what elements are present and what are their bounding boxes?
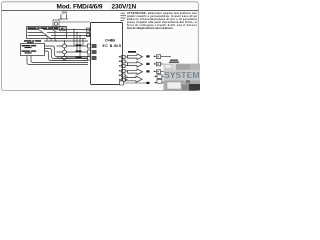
thermostat panel B1 [21, 44, 45, 56]
wire supply horizontal [59, 18, 69, 20]
lamp H2 [63, 50, 67, 54]
junction dot 1 [73, 29, 74, 30]
switch blade 3 [47, 36, 52, 39]
selector switch panel S1 [27, 27, 67, 39]
controller board A1 [91, 23, 123, 85]
svg-text:EC B-BIS: EC B-BIS [103, 44, 122, 48]
svg-text:230V: 230V [62, 11, 68, 14]
board output connector P5 [122, 74, 126, 77]
page border frame [2, 2, 199, 91]
watermark top light patch [164, 64, 176, 70]
wire switch drop a [46, 36, 48, 42]
wire bus row 2 [66, 32, 90, 34]
junction dot 4 [55, 40, 56, 41]
board output connector P1 [122, 56, 126, 59]
watermark panel [164, 64, 201, 91]
remote connector K1 [157, 55, 161, 59]
wire switch drop b [50, 39, 52, 42]
note paragraph [127, 11, 198, 30]
ferrite blob 2 [146, 63, 149, 65]
wire drop col 2 [76, 33, 78, 53]
board output connector P2 [122, 60, 126, 63]
wire label blob row 1 [76, 44, 82, 46]
wire bus row 4 [51, 38, 86, 40]
wire bus row 1 [66, 29, 90, 31]
wire elbow fan 4 [31, 56, 88, 63]
board corner connector P7 [120, 81, 124, 85]
watermark dark block [189, 84, 200, 91]
selector indicator mark [61, 28, 64, 30]
junction dot 3 [79, 35, 80, 36]
wire corner row [124, 82, 147, 84]
wire lamp chain [64, 41, 66, 56]
wire bus row 3 [66, 35, 90, 37]
connector J4b [92, 50, 97, 54]
switch wire row 3 [28, 35, 67, 37]
selector switch label [28, 27, 59, 29]
connector J1a [87, 28, 90, 31]
watermark top white chip [165, 65, 172, 69]
watermark top dark patch [176, 64, 190, 70]
wire elbow fan 5 [27, 56, 88, 65]
wire to watermark 2 [161, 63, 171, 65]
wire drop col 1 [73, 30, 75, 47]
pin mark k2 [154, 63, 156, 64]
board output pin p5 [119, 75, 121, 76]
wire label blob row 2 [76, 50, 82, 52]
switch blade 2 [43, 33, 48, 36]
svg-text:Mod. FMD/4/6/9: Mod. FMD/4/6/9 [57, 3, 103, 10]
wire lamp row 3 [57, 57, 88, 59]
ferrite blob 3 [146, 70, 149, 72]
page background [0, 0, 200, 94]
connector J3b [92, 44, 97, 48]
wire to watermark 5 [162, 82, 171, 84]
wire supply drop [60, 19, 62, 20]
pin dot K2 [157, 64, 158, 65]
wire to watermark 1 [161, 56, 171, 58]
cable arrow 4 (bottom) [126, 76, 143, 82]
wire label blob row 3 [76, 56, 82, 58]
connector J5b [92, 56, 97, 60]
board output pin p6 [119, 79, 121, 80]
junction dot lamp [64, 40, 65, 41]
watermark white box [167, 82, 181, 89]
board output pin p3 [119, 65, 121, 66]
cable arrow 3 [128, 69, 143, 75]
switch bottom label [24, 40, 41, 43]
switch blade 1 [39, 30, 44, 33]
wire fan top bus [44, 40, 88, 42]
wire supply to board [59, 21, 90, 23]
wire lamp row 1 [57, 45, 88, 47]
terminal block circle [54, 22, 57, 25]
wire to watermark 4 [162, 76, 171, 78]
switch wire row 2 [28, 32, 67, 34]
remote connector K3 [157, 70, 161, 74]
cable arrow 1 [128, 54, 143, 60]
ferrite blob 1 [146, 55, 149, 57]
wire elbow fan 2 [44, 49, 88, 59]
wire elbow fan 1 [44, 46, 90, 57]
junction dot 2 [76, 32, 77, 33]
thermostat label 2 [22, 50, 37, 53]
wire elbow fan 3 [44, 51, 88, 61]
connector J2a [87, 34, 90, 37]
board pin legend [121, 13, 127, 21]
connector J4a [88, 50, 92, 54]
watermark mid block [182, 85, 189, 91]
connector J2b [90, 34, 93, 37]
board output connector P6 [122, 79, 126, 82]
watermark top right patch [190, 64, 200, 70]
board output connector P4 [122, 70, 126, 73]
thermostat label 1 [22, 45, 37, 48]
wire output 5 [125, 76, 127, 77]
wire drop col 4 [82, 39, 84, 47]
pin dot K3 [157, 71, 158, 72]
remote connector K2 [157, 62, 161, 66]
watermark small dark patch [186, 80, 190, 84]
switch blade 4 [53, 30, 58, 33]
supply terminal N [66, 14, 68, 19]
pin mark k5 [155, 82, 157, 83]
connector J5a [88, 56, 92, 60]
switch wire row 1 [28, 29, 67, 31]
title bar rule [2, 10, 199, 12]
wire output 4 [125, 70, 127, 72]
pin mark k1 [154, 56, 156, 57]
wire to watermark 3 [161, 71, 171, 73]
cable label L-BB [128, 51, 136, 53]
board output pin p4 [119, 70, 121, 71]
terminal block TB [53, 20, 59, 28]
connector J1b [90, 28, 93, 31]
wire switch drop c [54, 33, 56, 42]
pin dot K1 [157, 56, 158, 57]
lamp H3 [63, 56, 67, 60]
wire output 6 [125, 79, 127, 82]
wire drop col 3 [79, 36, 81, 59]
lamp H1 [63, 44, 67, 48]
wire output 2 [125, 62, 127, 63]
svg-text:230V/1N: 230V/1N [112, 3, 137, 10]
svg-text:fissi di colleghi tandori stes: fissi di colleghi tandori stessi al bloc… [127, 26, 173, 30]
board output pin p1 [119, 56, 121, 57]
remote connector K4 [157, 75, 162, 79]
board output pin p2 [119, 61, 121, 62]
wire output 3 [125, 65, 127, 68]
wire lamp row 2 [57, 51, 88, 53]
board output connector P3 [122, 65, 126, 68]
supply terminal L [60, 14, 62, 19]
wire output 1 [125, 56, 127, 58]
pin mark k3 [154, 71, 156, 72]
connector J3a [88, 44, 92, 48]
selector indicator box [60, 26, 66, 31]
pin mark k4 [155, 76, 157, 77]
watermark legend label [170, 60, 178, 61]
cable arrow 2 [128, 61, 143, 67]
watermark legend label 2 [169, 62, 179, 63]
svg-text:C+BB: C+BB [105, 39, 115, 43]
ferrite blob 4 [146, 82, 149, 84]
svg-text:SYSTEM: SYSTEM [164, 70, 200, 80]
remote connector K5 [157, 80, 162, 84]
watermark bottom band [164, 81, 201, 91]
